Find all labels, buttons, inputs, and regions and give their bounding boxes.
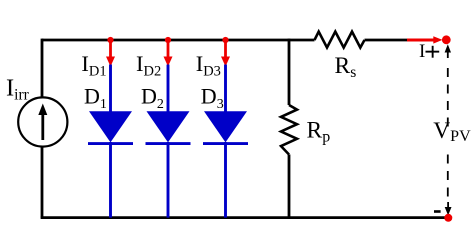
wire left vertical upper bbox=[41, 39, 44, 98]
node A (diode1 top junction) bbox=[107, 37, 113, 43]
current source Iirr bbox=[18, 97, 67, 146]
wire left vertical lower bbox=[41, 147, 44, 218]
current arrow ID3 bbox=[221, 40, 230, 67]
diode D1 bbox=[88, 65, 133, 218]
node B (diode2 top junction) bbox=[165, 37, 171, 43]
resistor Rs bbox=[315, 32, 365, 48]
wire Rp branch upper bbox=[288, 39, 291, 105]
wire bottom rail bbox=[41, 216, 449, 219]
VPV arrow up (top of measurement line) bbox=[445, 44, 451, 58]
wire top rail left (source to Rs) bbox=[42, 39, 315, 42]
diode D2 bbox=[146, 65, 191, 218]
current arrow ID1 bbox=[106, 40, 115, 67]
diode D3 bbox=[203, 65, 248, 218]
VPV arrow down (bottom of measurement line) bbox=[445, 202, 452, 216]
node C (diode3 top junction) bbox=[222, 37, 228, 43]
dashed measurement line upper bbox=[447, 68, 449, 127]
wire top rail right (Rs to terminal) bbox=[365, 39, 408, 42]
node V- terminal bbox=[444, 214, 452, 222]
current arrow ID2 bbox=[164, 40, 173, 67]
wire output red segment bbox=[407, 39, 435, 42]
resistor Rp bbox=[281, 105, 297, 155]
wire Rp branch lower bbox=[288, 155, 291, 218]
label minus bbox=[434, 210, 441, 213]
svg-text:I: I bbox=[419, 41, 425, 62]
output arrowhead bbox=[433, 36, 442, 43]
node I+ terminal bbox=[442, 35, 451, 44]
dashed measurement line lower bbox=[447, 155, 449, 198]
